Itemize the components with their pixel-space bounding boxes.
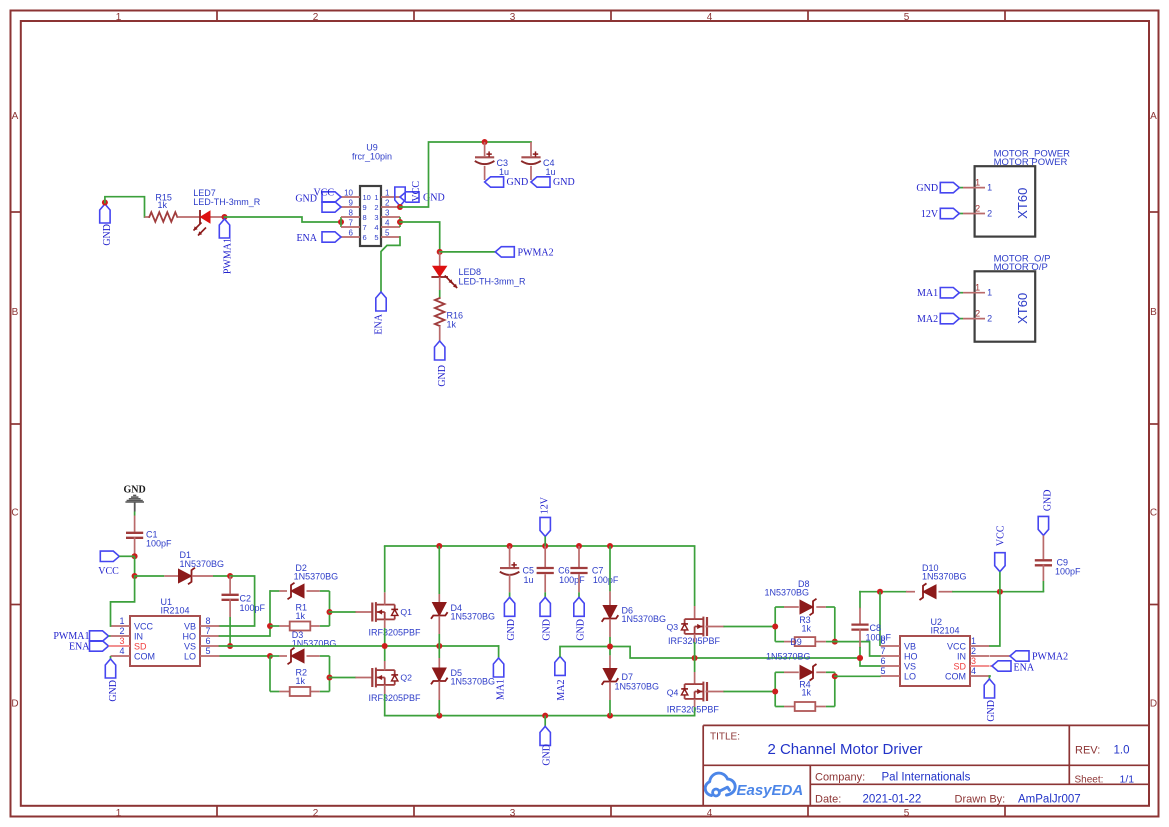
svg-text:GND: GND [102,224,113,246]
svg-text:3: 3 [374,213,378,222]
svg-text:MOTOR O/P: MOTOR O/P [994,262,1048,273]
svg-text:4: 4 [707,808,713,819]
svg-text:GND: GND [916,183,938,194]
svg-text:ENA: ENA [69,642,90,653]
svg-text:5: 5 [880,666,885,676]
svg-text:GND: GND [507,177,529,188]
svg-text:1N5370BG: 1N5370BG [451,612,496,622]
svg-text:COM: COM [945,671,966,681]
svg-text:1N5370BG: 1N5370BG [180,559,225,569]
svg-text:PWMA2: PWMA2 [518,247,554,258]
svg-text:Sheet:: Sheet: [1075,775,1104,786]
svg-text:1: 1 [987,183,992,193]
svg-text:100pF: 100pF [593,575,619,585]
svg-text:4: 4 [971,666,976,676]
svg-text:5: 5 [205,646,210,656]
svg-text:8: 8 [349,209,354,218]
svg-text:COM: COM [134,651,155,661]
svg-text:VCC: VCC [98,566,119,577]
svg-text:2: 2 [975,204,980,214]
svg-text:8: 8 [880,636,885,646]
svg-text:IN: IN [957,651,966,661]
svg-text:2: 2 [385,199,390,208]
svg-text:IRF3205PBF: IRF3205PBF [369,693,422,703]
svg-text:C6: C6 [558,566,570,576]
svg-text:5: 5 [385,229,390,238]
svg-text:Company:: Company: [815,772,865,784]
svg-text:1k: 1k [802,624,812,634]
svg-text:HO: HO [183,631,197,641]
svg-text:VCC: VCC [995,525,1006,546]
svg-text:GND: GND [506,619,517,641]
svg-text:1N5370BG: 1N5370BG [294,572,339,582]
svg-text:2 Channel Motor Driver: 2 Channel Motor Driver [767,741,922,758]
svg-text:1k: 1k [296,611,306,621]
svg-text:LED-TH-3mm_R: LED-TH-3mm_R [193,197,261,207]
svg-text:1N5370BG: 1N5370BG [292,639,337,649]
svg-text:ENA: ENA [1014,663,1035,674]
svg-text:7: 7 [205,626,210,636]
svg-text:6: 6 [205,636,210,646]
svg-text:GND: GND [986,700,997,722]
svg-text:5: 5 [904,808,910,819]
svg-text:2: 2 [119,626,124,636]
svg-text:1/1: 1/1 [1120,774,1135,786]
svg-text:XT60: XT60 [1015,293,1030,324]
svg-text:2: 2 [313,12,319,23]
svg-text:Pal Internationals: Pal Internationals [882,772,971,784]
svg-text:VB: VB [904,641,916,651]
svg-text:PWMA2: PWMA2 [1032,652,1068,663]
svg-text:12V: 12V [540,496,551,514]
svg-text:REV:: REV: [1075,745,1100,757]
svg-text:8: 8 [363,213,367,222]
svg-text:MA1: MA1 [917,288,938,299]
svg-text:10: 10 [344,189,353,198]
svg-text:GND: GND [553,177,575,188]
svg-text:3: 3 [119,636,124,646]
svg-text:PWMA1: PWMA1 [223,238,234,274]
svg-text:9: 9 [363,203,367,212]
svg-text:A: A [1150,111,1157,122]
svg-text:100pF: 100pF [866,633,892,643]
svg-text:1N5370BG: 1N5370BG [922,572,967,582]
svg-text:3: 3 [971,656,976,666]
svg-text:5: 5 [904,12,910,23]
svg-text:VCC: VCC [134,621,154,631]
svg-text:12V: 12V [921,209,939,220]
svg-text:GND: GND [1042,490,1053,512]
svg-text:6: 6 [363,233,367,242]
svg-text:1: 1 [987,288,992,298]
svg-text:AmPalJr007: AmPalJr007 [1018,794,1081,806]
svg-text:XT60: XT60 [1015,188,1030,219]
svg-text:1k: 1k [802,688,812,698]
svg-text:VS: VS [184,641,196,651]
svg-text:1N5370BG: 1N5370BG [766,652,811,662]
svg-text:GND: GND [295,194,317,205]
svg-text:1.0: 1.0 [1114,745,1130,757]
svg-text:TITLE:: TITLE: [710,732,740,743]
svg-text:SD: SD [134,641,147,651]
svg-text:1N5370BG: 1N5370BG [622,614,667,624]
svg-text:LO: LO [184,651,196,661]
svg-text:3: 3 [510,12,516,23]
svg-text:4: 4 [374,223,378,232]
svg-text:1: 1 [975,178,980,188]
svg-text:C: C [11,508,18,519]
svg-text:7: 7 [880,646,885,656]
svg-text:2: 2 [987,314,992,324]
svg-text:1N5370BG: 1N5370BG [615,682,660,692]
svg-text:8: 8 [205,616,210,626]
svg-text:1: 1 [119,616,124,626]
svg-text:100pF: 100pF [559,575,585,585]
svg-text:frcr_10pin: frcr_10pin [352,152,392,162]
svg-text:5: 5 [374,233,378,242]
svg-text:ENA: ENA [296,233,317,244]
svg-text:1: 1 [116,808,122,819]
svg-text:1: 1 [975,283,980,293]
svg-text:1: 1 [374,193,378,202]
svg-text:10: 10 [363,193,371,202]
svg-text:100pF: 100pF [146,539,172,549]
svg-text:VCC: VCC [947,641,967,651]
svg-text:D: D [1150,699,1157,710]
svg-text:100pF: 100pF [240,603,266,613]
svg-text:LO: LO [904,671,916,681]
svg-text:IN: IN [134,631,143,641]
svg-text:1u: 1u [546,167,556,177]
svg-text:VB: VB [184,621,196,631]
svg-text:4: 4 [707,12,713,23]
svg-text:ENA: ENA [374,313,385,334]
svg-text:IRF3205PBF: IRF3205PBF [667,705,720,715]
svg-text:2: 2 [975,309,980,319]
svg-text:1: 1 [385,189,390,198]
svg-text:2: 2 [313,808,319,819]
svg-text:Q3: Q3 [667,622,679,632]
svg-text:GND: GND [575,619,586,641]
svg-text:SD: SD [953,661,966,671]
svg-text:Drawn By:: Drawn By: [955,794,1006,806]
svg-text:4: 4 [119,646,124,656]
svg-text:Q2: Q2 [400,673,412,683]
svg-text:MOTOR POWER: MOTOR POWER [994,157,1068,168]
svg-text:VCC: VCC [411,181,422,202]
svg-text:1k: 1k [447,320,457,330]
svg-text:1k: 1k [158,200,168,210]
svg-text:PWMA1: PWMA1 [53,631,89,642]
svg-text:LED8: LED8 [459,267,482,277]
svg-text:MA1: MA1 [496,679,507,700]
svg-text:IR2104: IR2104 [931,626,960,636]
svg-text:IRF3205PBF: IRF3205PBF [369,628,422,638]
svg-text:6: 6 [349,229,354,238]
svg-text:2: 2 [374,203,378,212]
svg-text:Q4: Q4 [667,688,679,698]
svg-text:1N5370BG: 1N5370BG [765,588,810,598]
svg-text:1u: 1u [499,167,509,177]
svg-text:3: 3 [385,209,390,218]
svg-text:1: 1 [971,636,976,646]
svg-text:C7: C7 [592,566,604,576]
svg-text:4: 4 [385,219,390,228]
svg-text:MA2: MA2 [556,680,567,701]
svg-text:GND: GND [542,619,553,641]
svg-text:C: C [1150,508,1157,519]
svg-text:100pF: 100pF [1055,567,1081,577]
svg-text:7: 7 [363,223,367,232]
svg-text:Q1: Q1 [400,607,412,617]
svg-text:D7: D7 [622,672,634,682]
svg-text:A: A [12,111,19,122]
svg-text:Date:: Date: [815,794,841,806]
svg-text:1k: 1k [296,676,306,686]
svg-text:2: 2 [971,646,976,656]
svg-text:GND: GND [542,744,553,766]
svg-text:1u: 1u [524,575,534,585]
svg-text:C5: C5 [523,566,535,576]
svg-text:1N5370BG: 1N5370BG [451,677,496,687]
svg-text:C8: C8 [870,623,882,633]
svg-text:2021-01-22: 2021-01-22 [863,794,922,806]
svg-text:EasyEDA: EasyEDA [737,782,804,799]
svg-text:D9: D9 [790,637,802,647]
svg-text:9: 9 [349,199,354,208]
svg-text:6: 6 [880,656,885,666]
svg-text:GND: GND [108,680,119,702]
svg-text:GND: GND [423,193,445,204]
svg-text:2: 2 [987,209,992,219]
svg-text:7: 7 [349,219,354,228]
svg-text:LED-TH-3mm_R: LED-TH-3mm_R [459,277,527,287]
svg-text:HO: HO [904,651,918,661]
svg-text:B: B [12,307,19,318]
svg-text:MA2: MA2 [917,314,938,325]
svg-text:3: 3 [510,808,516,819]
svg-text:B: B [1150,307,1157,318]
svg-text:C2: C2 [240,594,252,604]
svg-text:VS: VS [904,661,916,671]
svg-text:GND: GND [123,485,145,496]
svg-text:1: 1 [116,12,122,23]
svg-text:GND: GND [437,365,448,387]
svg-text:IR2104: IR2104 [161,606,190,616]
svg-text:D: D [11,699,18,710]
